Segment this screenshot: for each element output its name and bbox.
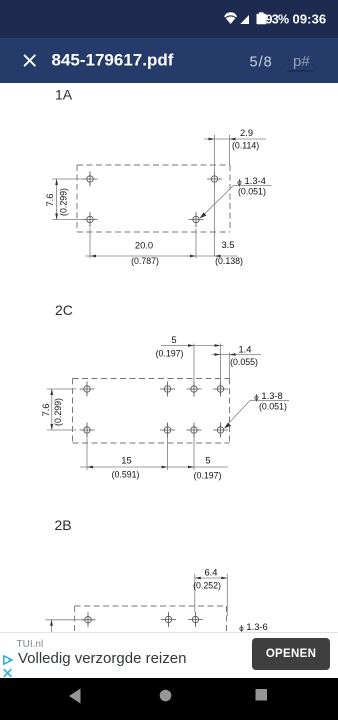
page input underline: [287, 70, 314, 72]
svg-text:6.4: 6.4: [204, 567, 217, 578]
wifi icon: [224, 12, 237, 24]
2C hole row2 col3: [187, 423, 202, 438]
2B hole col2: [161, 612, 176, 627]
svg-text:(0.299): (0.299): [59, 188, 69, 216]
svg-text:20.0: 20.0: [135, 240, 153, 251]
svg-text:(0.787): (0.787): [131, 256, 159, 266]
1A hole top-right: [207, 172, 222, 187]
2B hole col1: [81, 612, 96, 627]
svg-text:(0.299): (0.299): [53, 398, 63, 426]
svg-text:1.3-4: 1.3-4: [245, 175, 266, 186]
svg-text:2B: 2B: [55, 517, 72, 533]
2C dimension 5 (0.197) top: [161, 344, 224, 383]
svg-text:7.6: 7.6: [40, 403, 51, 416]
signal icon: [240, 15, 249, 24]
2C footprint outline (dashed): [73, 379, 230, 444]
ad text TUI.nl: [17, 639, 44, 650]
svg-text:5: 5: [205, 455, 210, 466]
2C dimension 1.4 (0.055) top right: [212, 353, 262, 379]
svg-text:(0.051): (0.051): [238, 187, 266, 197]
2B dimension 7.6 start (cut off): [46, 620, 81, 632]
1A hole bottom-right: [189, 212, 204, 227]
svg-text:2C: 2C: [55, 302, 73, 318]
svg-text:1.3-6: 1.3-6: [246, 621, 267, 632]
svg-text:ϕ: ϕ: [239, 624, 244, 632]
svg-text:1A: 1A: [55, 87, 73, 103]
ad banner: [0, 632, 338, 678]
1A footprint outline (dashed): [77, 165, 230, 232]
svg-text:09:36: 09:36: [293, 12, 327, 27]
svg-text:1.4: 1.4: [238, 344, 251, 355]
status bar icons + clock: [0, 0, 338, 38]
nav recents square: [256, 689, 268, 701]
battery icon: [259, 12, 264, 15]
ad OPENEN button: [252, 638, 330, 670]
adchoices triangle icon: [2, 654, 16, 667]
svg-text:2.9: 2.9: [240, 127, 253, 138]
svg-text:(0.055): (0.055): [230, 357, 258, 367]
svg-text:(0.114): (0.114): [232, 141, 259, 151]
1A dimension 2.9 (0.114) top right: [204, 135, 266, 257]
svg-text:7.6: 7.6: [44, 193, 55, 206]
2C hole row1 col1: [80, 382, 95, 397]
2B footprint outline partial (dashed): [75, 606, 227, 632]
nav home circle: [160, 690, 172, 702]
ad headline: [18, 650, 186, 667]
svg-text:93%: 93%: [266, 13, 290, 27]
1A hole callout leader ϕ1.3-4: [203, 186, 272, 216]
1A hole top-left: [83, 172, 98, 187]
1A dimension 20.0 (0.787) bottom: [85, 228, 237, 258]
2B hole col3: [188, 612, 203, 627]
svg-text:3.5: 3.5: [221, 239, 234, 250]
svg-text:(0.051): (0.051): [259, 402, 287, 412]
2C hole row1 col3: [187, 382, 202, 397]
2C hole row2 col1: [80, 423, 95, 438]
nav back triangle: [69, 689, 81, 704]
1A dimension 7.6 (0.299) left: [52, 179, 83, 220]
svg-text:5/8: 5/8: [250, 55, 273, 71]
ad close X icon: [2, 668, 14, 679]
svg-text:p#: p#: [293, 53, 310, 70]
2C hole row1 col4: [213, 382, 228, 397]
svg-text:(0.138): (0.138): [215, 256, 243, 266]
2C hole callout leader ϕ1.3-8: [227, 401, 290, 426]
svg-text:(0.252): (0.252): [193, 581, 221, 591]
toolbar: [0, 38, 338, 83]
1A hole bottom-left: [83, 212, 98, 227]
status bar: [0, 0, 338, 38]
2C dimension 7.6 (0.299) left: [47, 389, 77, 430]
PDF page content: [0, 83, 338, 632]
2C hole row2 col4: [213, 423, 228, 438]
svg-text:15: 15: [121, 455, 131, 466]
svg-text:5: 5: [171, 334, 176, 345]
android navigation bar: [0, 678, 338, 720]
2B dimension 6.4 (0.252): [195, 574, 228, 616]
svg-text:845-179617.pdf: 845-179617.pdf: [52, 50, 174, 69]
svg-text:(0.591): (0.591): [112, 470, 140, 480]
svg-text:(0.197): (0.197): [156, 349, 184, 359]
svg-text:1.3-8: 1.3-8: [261, 390, 282, 401]
2C hole row2 col2: [160, 423, 175, 438]
2C dimension 15 (0.591) bottom: [80, 437, 228, 470]
close X icon: [25, 55, 35, 65]
svg-text:(0.197): (0.197): [194, 471, 222, 481]
2C hole row1 col2: [160, 382, 175, 397]
